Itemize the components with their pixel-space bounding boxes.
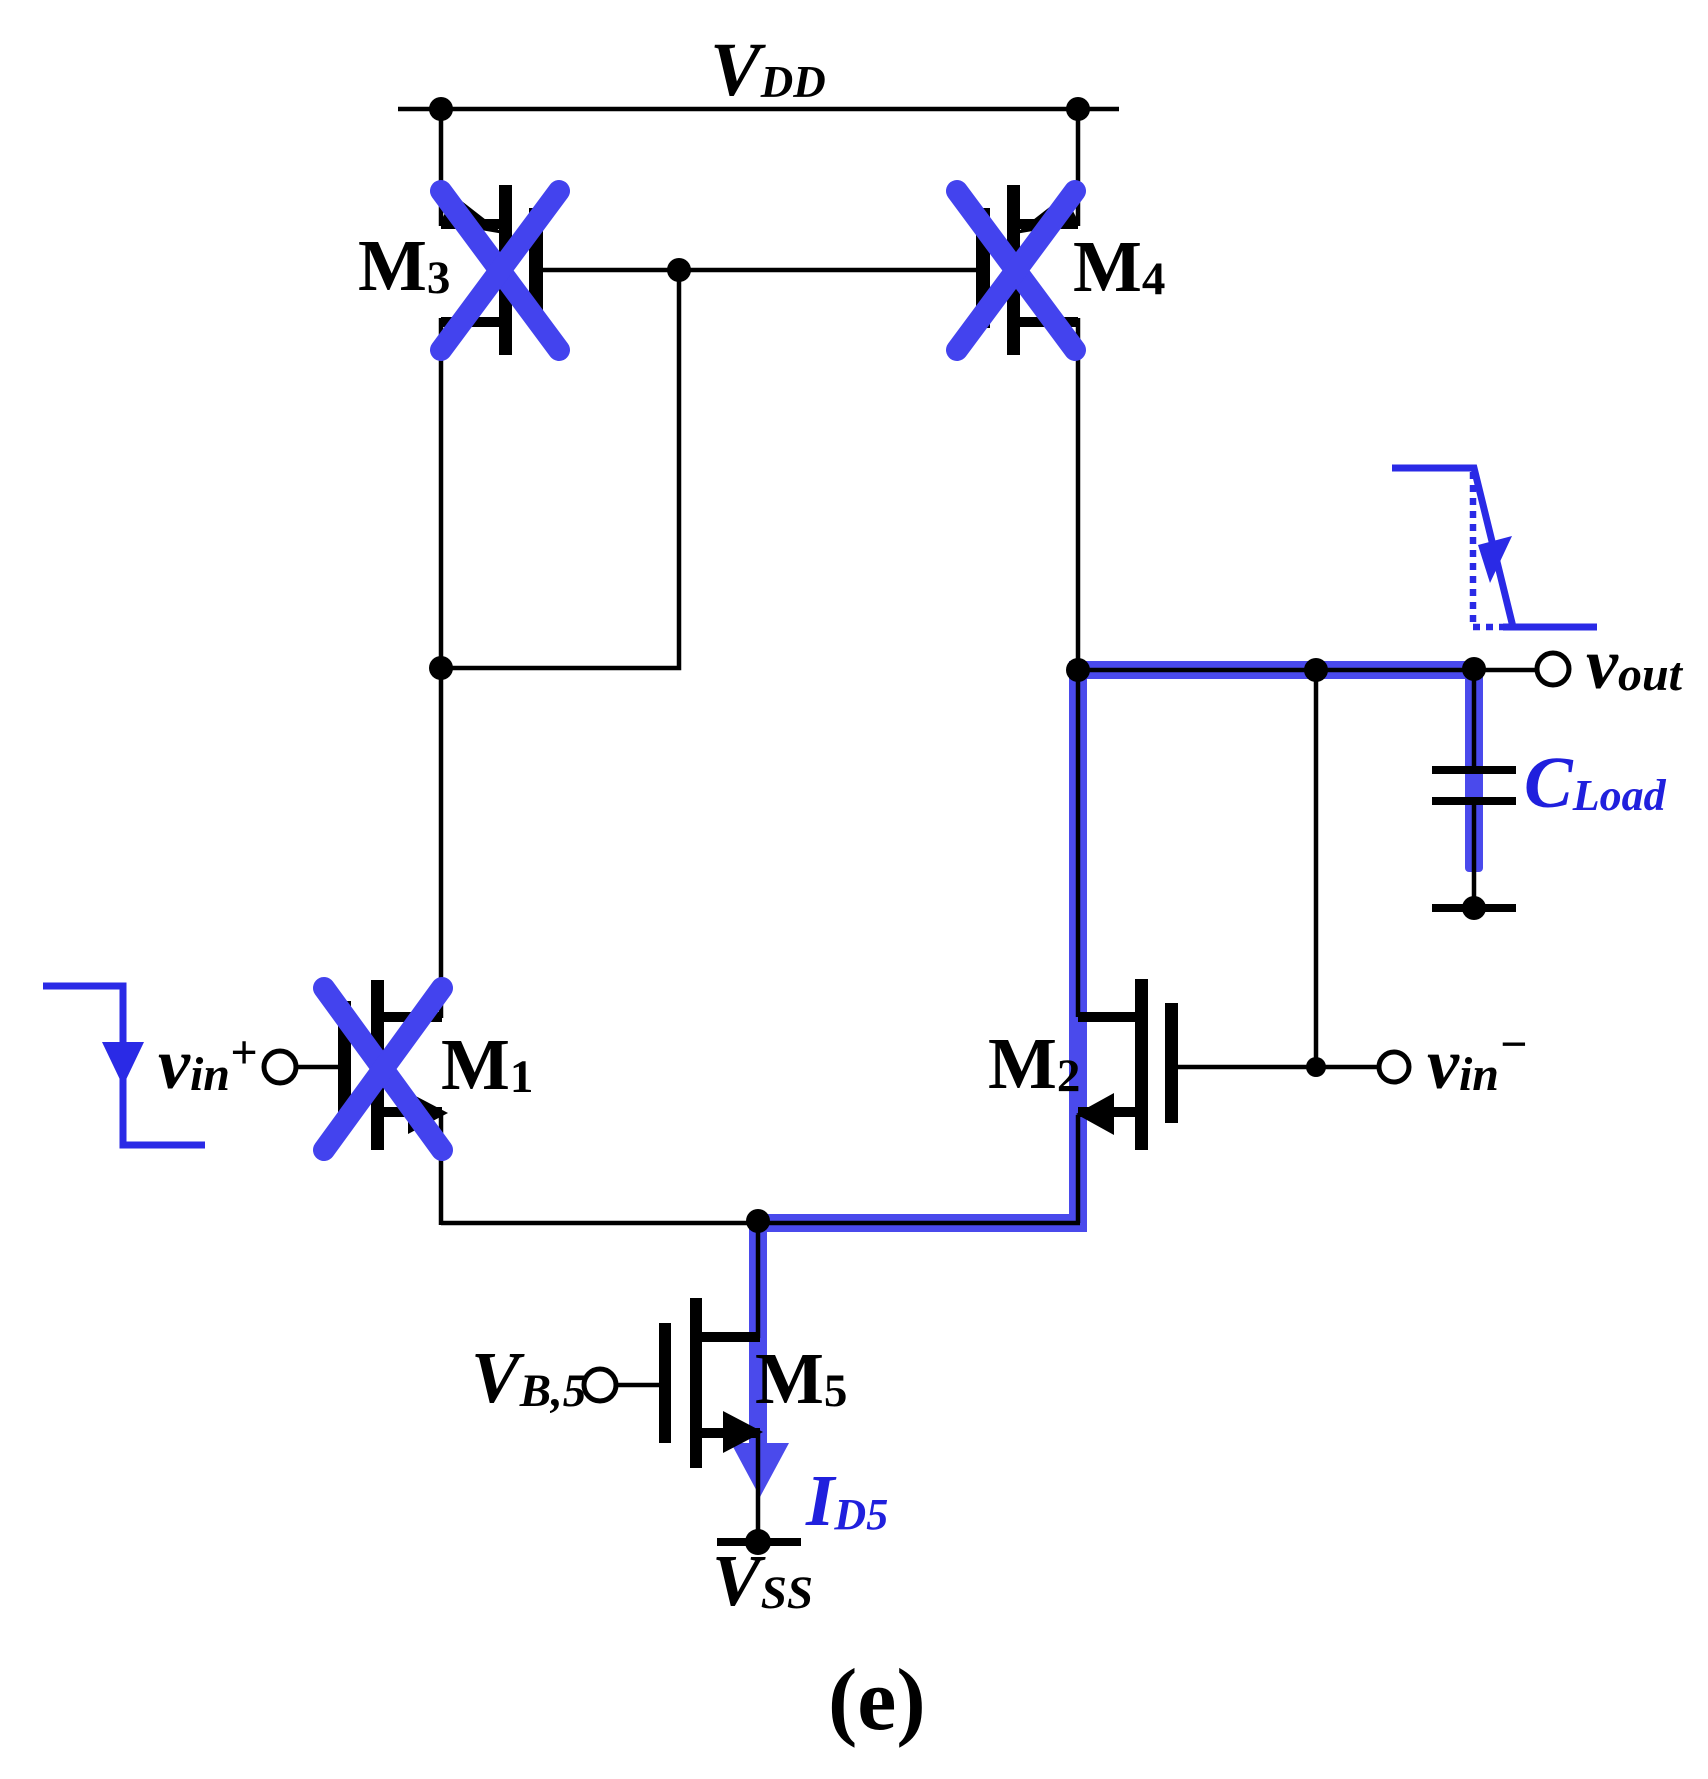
wire M1 gate lead (296, 1065, 340, 1070)
terminal vin- circle (1379, 1052, 1409, 1082)
capacitor bottom wire (1472, 801, 1477, 908)
junction VSS (745, 1529, 771, 1555)
terminal vout circle (1537, 653, 1569, 685)
junction tail node (746, 1209, 770, 1233)
waveform vout arrowhead (1478, 536, 1512, 583)
waveform vin+ falling step (blue) (43, 986, 205, 1145)
waveform vin+ arrowhead (102, 1042, 144, 1086)
transistor M4 (PMOS, crossed out) (976, 185, 1079, 355)
wire M3 drain down to node A (439, 318, 444, 1018)
wire M2 source to tail (1076, 1115, 1081, 1223)
wire M4 drain down to output (1076, 318, 1081, 672)
terminal VB5 circle (584, 1369, 616, 1401)
wire diode connection (mirror node to node A) (443, 272, 679, 668)
junction output at CLoad (1462, 657, 1486, 681)
wire tail horizontal (441, 1221, 1080, 1226)
capacitor CLoad (1432, 770, 1516, 801)
wire M2 gate lead (1178, 1065, 1379, 1070)
junction gate-mirror node (667, 258, 691, 282)
wire M5 gate lead (616, 1383, 661, 1388)
highlighted current path (blue band) tail wire segment (749, 1214, 1087, 1232)
junction M2 gate node (1306, 1057, 1326, 1077)
waveform vout falling edge (blue) (1392, 468, 1597, 627)
highlighted current path arrowhead ID5 (731, 1443, 789, 1497)
wire M4 source lead from VDD (1076, 107, 1081, 226)
junction CLoad ground (1462, 896, 1486, 920)
highlighted current path (blue band) M5 column (749, 1214, 767, 1450)
cross-out X over M4 (957, 191, 1075, 350)
highlighted current path (blue band) CLoad column (1465, 661, 1483, 872)
capacitor C1 top wire (1472, 670, 1477, 766)
junction node A (M3 drain) (429, 656, 453, 680)
cross-out X over M3 (441, 191, 559, 350)
svg-text:(e): (e) (828, 1652, 926, 1749)
wire feedback column to M2 gate (1314, 670, 1319, 1067)
transistor M2 (NMOS) (1076, 979, 1178, 1150)
wire M5 source to VSS (756, 1433, 761, 1541)
highlighted current path (blue band) M2 drain-source column (1069, 661, 1087, 1232)
wire output line (1078, 668, 1537, 673)
wire M5 drain from tail node (756, 1221, 761, 1338)
junction VDD-left (429, 97, 453, 121)
ground bar below CLoad (1432, 904, 1516, 912)
highlighted current path (blue band) output line (1069, 661, 1483, 679)
junction output mid (feedback tap) (1304, 658, 1328, 682)
transistor M5 (NMOS) (659, 1298, 763, 1468)
transistor M3 (PMOS, crossed out) (440, 185, 543, 355)
ground VSS bar (717, 1538, 801, 1546)
wire M1 source to tail (439, 1115, 444, 1225)
terminal vin+ circle (264, 1051, 296, 1083)
transistor M1 (NMOS, crossed out) (338, 980, 448, 1150)
wire M2 drain from output (1076, 670, 1081, 1017)
wire M3 source lead from VDD (439, 107, 444, 226)
junction VDD-right (1066, 97, 1090, 121)
junction output at M4 drain (1066, 658, 1090, 682)
cross-out X over M1 (324, 988, 442, 1150)
wire VDD rail (398, 107, 1119, 112)
wire gate line M3-M4 (543, 268, 976, 273)
